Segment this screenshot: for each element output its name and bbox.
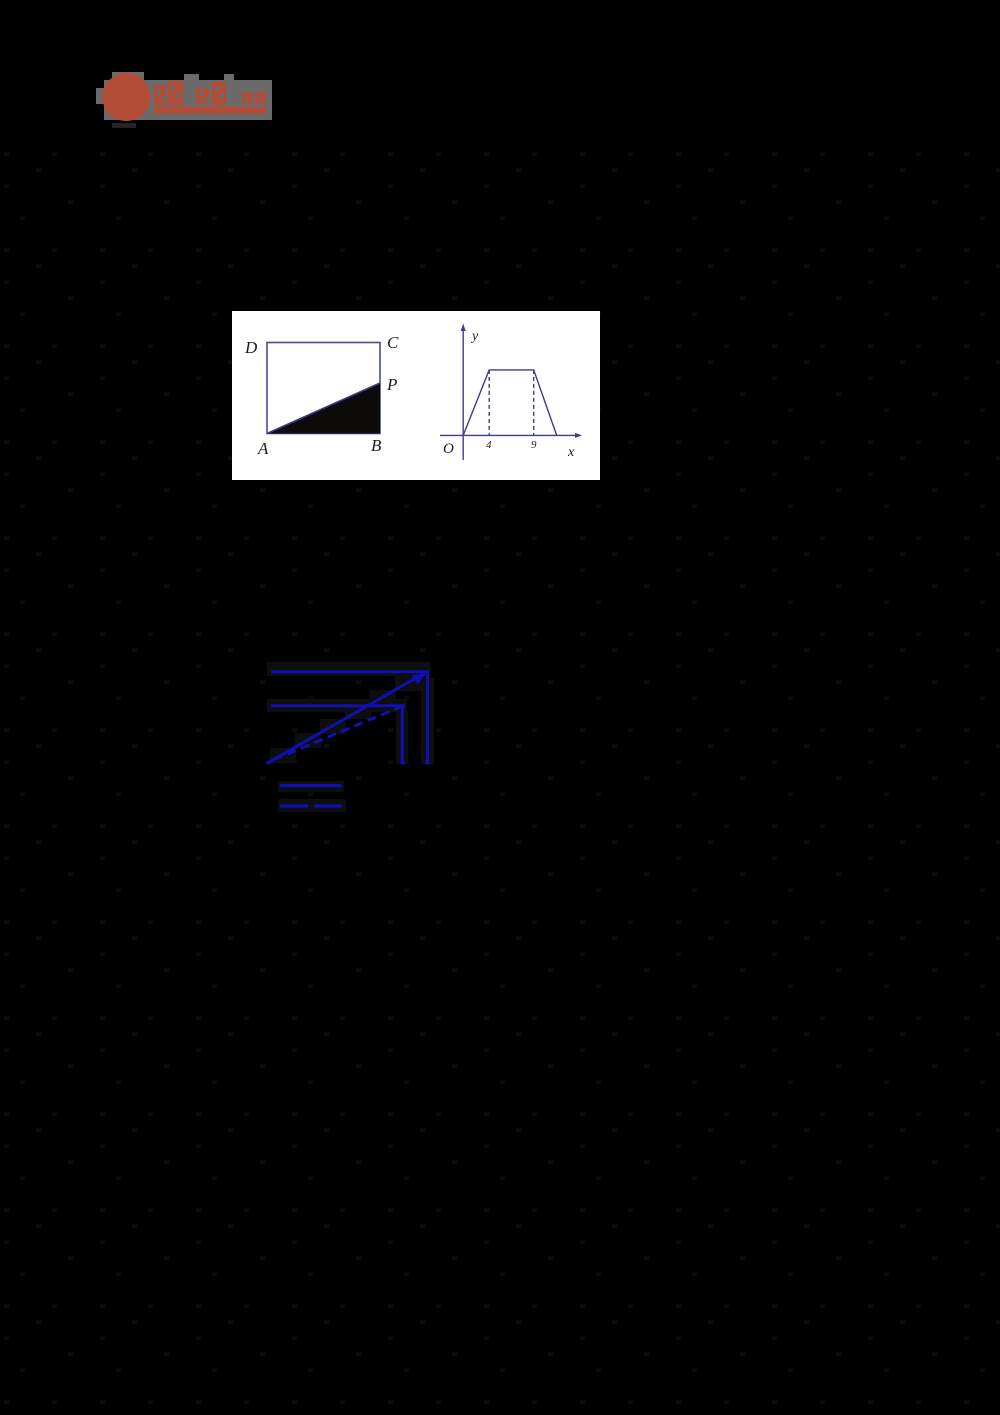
svg-text:O: O: [443, 441, 454, 457]
axis arrowheads: [461, 324, 466, 332]
second horizontal: [271, 704, 405, 707]
legend dashed bar: [280, 804, 342, 807]
gray backing blobs: [96, 88, 105, 104]
bottom ticks: [401, 761, 405, 765]
x-axis: [440, 434, 580, 436]
trapezoid: [463, 370, 557, 436]
rectangle ABCD: [267, 343, 380, 434]
dashed diagonal: [274, 707, 402, 760]
labels left figure: [244, 333, 399, 458]
hypotenuse AP: [267, 383, 380, 434]
svg-text:C: C: [387, 333, 399, 352]
vertical 2: [426, 672, 429, 762]
shaded triangle ABP: [267, 383, 380, 434]
diagonal arrowhead: [412, 673, 428, 685]
svg-text:9: 9: [531, 439, 537, 451]
white figure panel: [232, 311, 600, 480]
url bar: [154, 107, 266, 114]
blue hand-drawn figure: [255, 655, 445, 815]
vertical 1: [401, 706, 404, 762]
red circle: [102, 73, 150, 121]
svg-text:B: B: [371, 436, 382, 455]
svg-text:P: P: [386, 375, 397, 394]
labels right figure: [443, 329, 575, 460]
svg-text:x: x: [567, 445, 575, 460]
gray stroke gaps inside chars: [157, 86, 261, 101]
y-axis: [462, 327, 464, 460]
top horizontal: [271, 670, 429, 673]
solid diagonal: [267, 672, 428, 764]
svg-text:A: A: [257, 439, 269, 458]
dashed verticals: [488, 370, 490, 436]
svg-text:D: D: [244, 338, 258, 357]
logo: [95, 60, 280, 140]
red chinese chars: [154, 81, 266, 114]
small dark text strip: [112, 123, 136, 128]
legend solid bar: [280, 784, 341, 787]
faint backdrop remnants: [267, 662, 434, 812]
right graph: [440, 327, 580, 460]
svg-text:y: y: [470, 329, 479, 344]
svg-text:4: 4: [486, 439, 492, 451]
